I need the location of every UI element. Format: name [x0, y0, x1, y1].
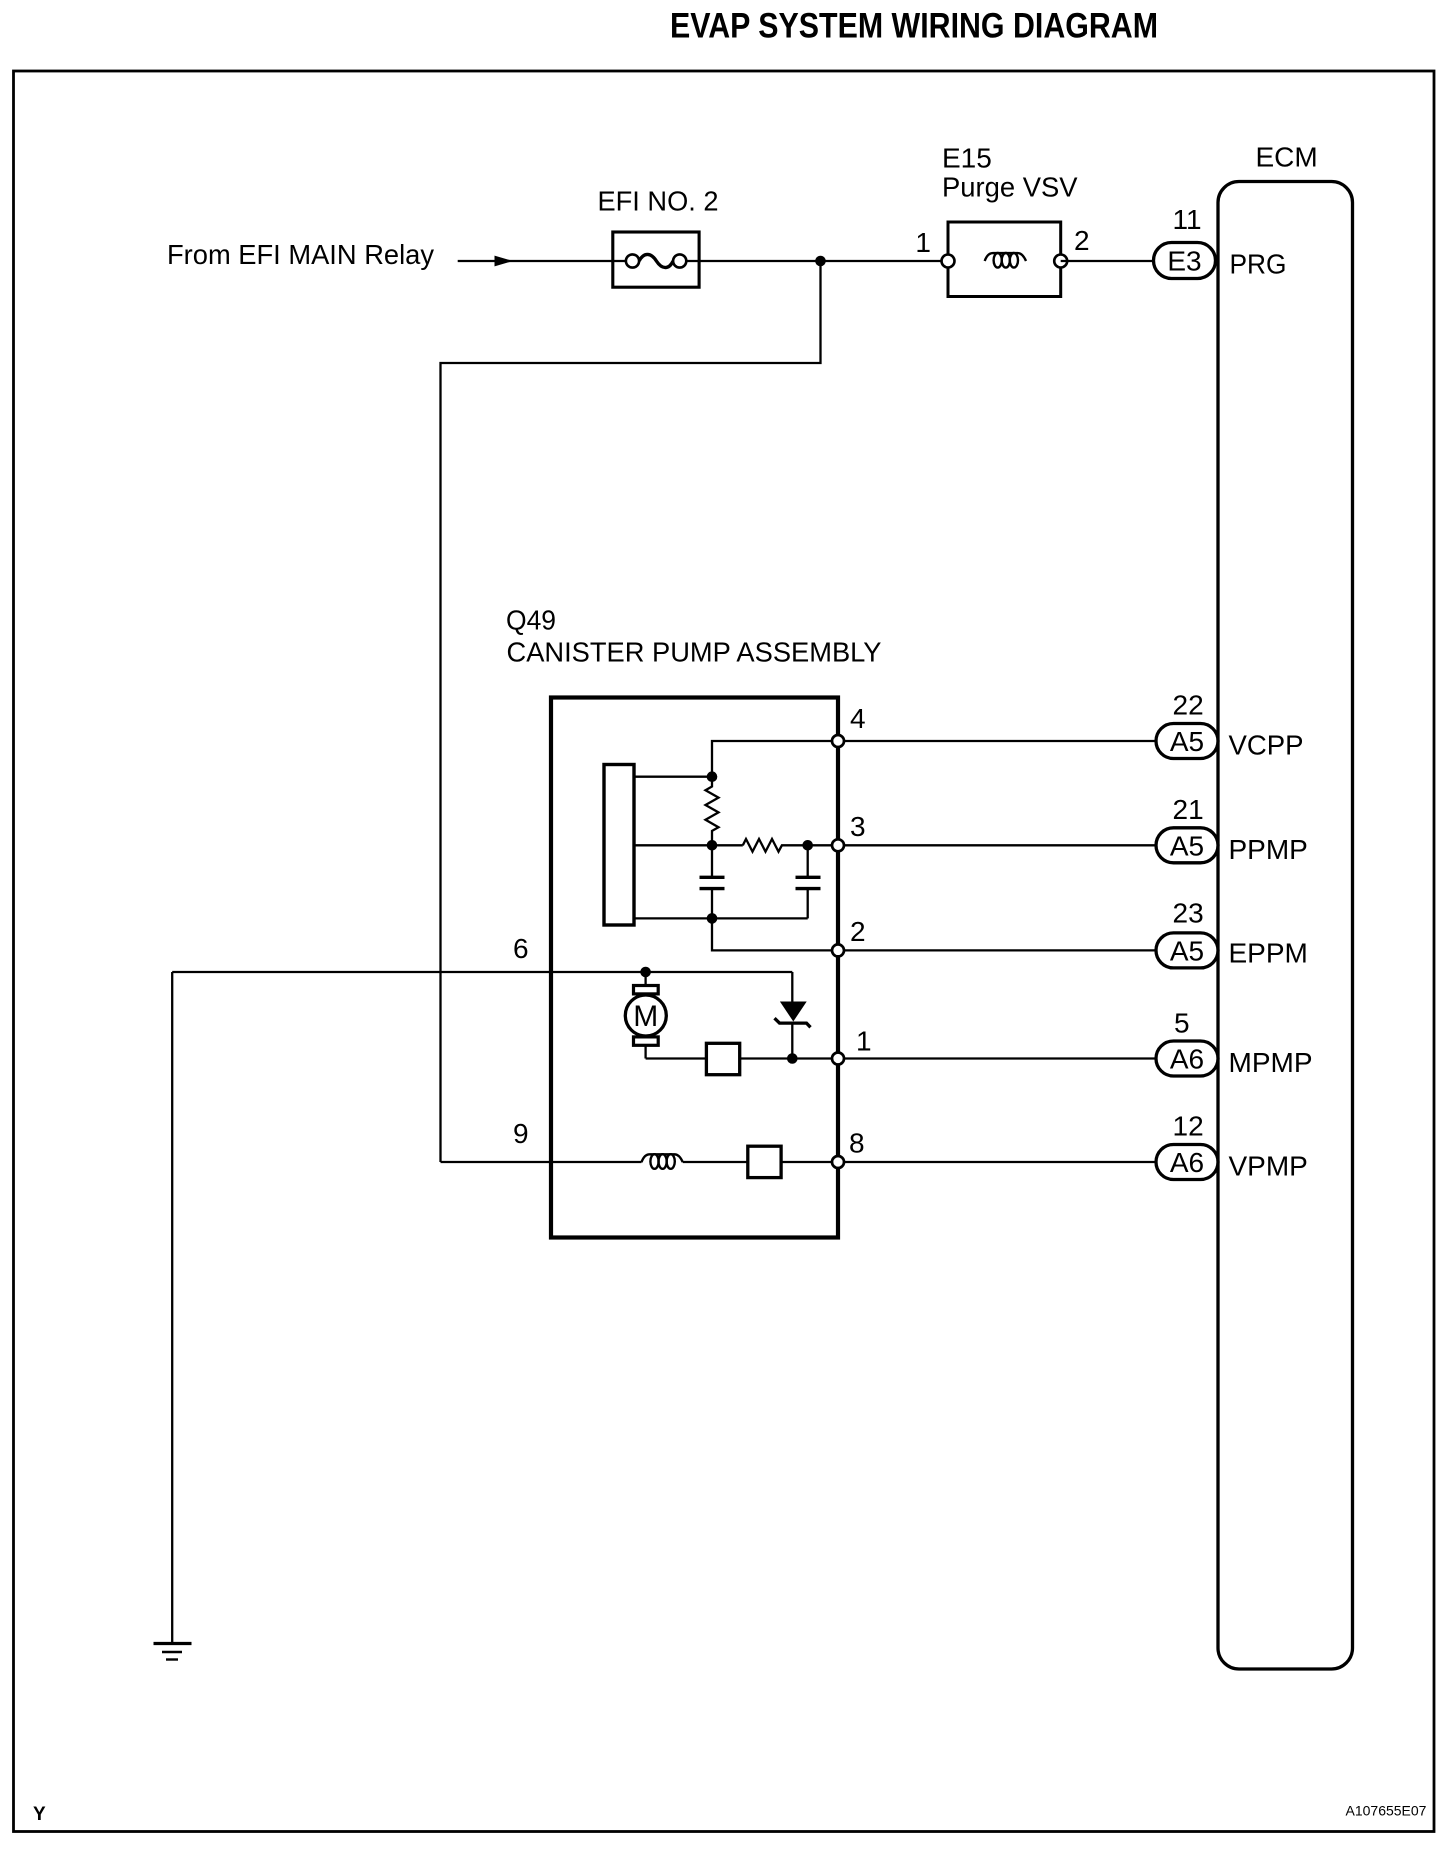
connector E3 oval — [1154, 243, 1216, 279]
svg-text:8: 8 — [849, 1128, 865, 1159]
svg-text:2: 2 — [850, 916, 866, 947]
svg-text:VPMP: VPMP — [1229, 1151, 1308, 1182]
svg-text:A5: A5 — [1170, 935, 1204, 966]
svg-text:M: M — [633, 1000, 658, 1033]
pin 6 wire (ground feed) — [172, 971, 792, 973]
svg-text:VCPP: VCPP — [1229, 730, 1304, 761]
wire from EFI MAIN relay to fuse — [458, 260, 633, 262]
connector A5 oval (EPPM) — [1156, 933, 1218, 968]
connector A5 oval (PPMP) — [1156, 828, 1218, 863]
junction dot on pin 1 net — [787, 1053, 798, 1064]
wire sensor bottom rail — [634, 917, 808, 919]
Purge VSV terminal circle pin 1 — [942, 255, 955, 268]
driver block (square) on pin 1 net — [706, 1043, 739, 1074]
svg-text:E3: E3 — [1167, 246, 1201, 277]
svg-text:ECM: ECM — [1256, 142, 1318, 173]
svg-text:6: 6 — [513, 933, 529, 964]
wire pin 2 to connector A5 (EPPM) — [844, 949, 1156, 951]
junction dot node C (R2 right) — [802, 840, 813, 851]
svg-text:3: 3 — [850, 811, 866, 842]
svg-text:PPMP: PPMP — [1229, 834, 1308, 865]
diode D1 (zener) — [775, 972, 811, 1059]
wire pin 8 to connector A6 (VPMP) — [844, 1161, 1156, 1163]
svg-text:9: 9 — [513, 1118, 529, 1149]
svg-text:23: 23 — [1173, 898, 1204, 929]
capacitor C1 — [700, 845, 725, 918]
svg-text:A5: A5 — [1170, 726, 1204, 757]
pin 1 terminal circle — [832, 1053, 844, 1065]
svg-text:EVAP SYSTEM WIRING DIAGRAM: EVAP SYSTEM WIRING DIAGRAM — [670, 6, 1158, 46]
svg-text:E15: E15 — [942, 143, 992, 174]
ground symbol — [154, 1644, 192, 1660]
wire coil to filter block — [683, 1161, 748, 1163]
pin 2 terminal circle — [832, 944, 844, 956]
connector A6 oval (VPMP) — [1156, 1145, 1218, 1180]
canister pump assembly Q49 box — [551, 698, 838, 1238]
svg-text:A6: A6 — [1170, 1147, 1204, 1178]
resistor R1 (vertical) — [706, 777, 719, 846]
junction dot on pin 6 wire — [640, 967, 651, 978]
wire sensor middle to node B — [634, 844, 743, 846]
pin 9 wire into coil — [441, 1161, 642, 1163]
pin 3 terminal circle — [832, 839, 844, 851]
wire Purge VSV pin 2 to ECM connector E3 — [1061, 260, 1155, 262]
node B junction dot — [707, 840, 718, 851]
svg-text:PRG: PRG — [1230, 249, 1287, 280]
Purge VSV terminal circle pin 2 — [1054, 255, 1067, 268]
svg-text:1: 1 — [856, 1026, 872, 1057]
solenoid E15 Purge VSV box — [948, 222, 1061, 297]
wire junction down-left to canister pump feed — [441, 261, 821, 1162]
ECM box — [1218, 182, 1353, 1670]
svg-text:11: 11 — [1173, 204, 1202, 235]
svg-text:A107655E07: A107655E07 — [1346, 1803, 1427, 1819]
wire node D to pin 2 — [712, 918, 838, 950]
junction dot below fuse output — [815, 256, 826, 267]
solenoid coil inside Purge VSV — [985, 253, 1026, 268]
arrowhead on supply wire — [495, 256, 514, 267]
svg-text:21: 21 — [1173, 794, 1204, 825]
wire pin 3 to connector A5 (PPMP) — [844, 844, 1156, 846]
svg-text:Y: Y — [33, 1804, 46, 1825]
pin 4 terminal circle — [832, 735, 844, 747]
svg-text:4: 4 — [850, 703, 866, 734]
svg-text:Q49: Q49 — [506, 605, 556, 636]
wire filter block to pin 8 — [781, 1161, 838, 1163]
wire fuse to junction to Purge VSV pin 1 — [680, 260, 948, 262]
wire pin 4 to connector A5 (VCPP) — [844, 740, 1156, 742]
svg-text:CANISTER PUMP ASSEMBLY: CANISTER PUMP ASSEMBLY — [507, 637, 882, 668]
svg-text:MPMP: MPMP — [1229, 1047, 1313, 1078]
motor M1 — [625, 972, 666, 1059]
svg-text:EFI NO. 2: EFI NO. 2 — [598, 186, 719, 217]
pressure sensor element (vertical bar) — [604, 765, 634, 926]
wire motor to driver block — [646, 1057, 707, 1059]
connector A6 oval (MPMP) — [1156, 1041, 1218, 1076]
svg-text:2: 2 — [1074, 225, 1090, 256]
node A junction dot — [707, 771, 718, 782]
wire pin 1 to connector A6 (MPMP) — [844, 1057, 1156, 1059]
inductor L1 on pin 9 net — [642, 1154, 683, 1169]
svg-text:A5: A5 — [1170, 830, 1204, 861]
pin 8 terminal circle — [832, 1156, 844, 1168]
fuse terminal circle left — [626, 254, 639, 267]
svg-text:22: 22 — [1173, 690, 1204, 721]
resistor R2 (horizontal) — [743, 839, 838, 852]
wire ground drop — [171, 972, 173, 1643]
fuse element wave — [639, 254, 673, 267]
fuse EFI NO. 2 box — [613, 232, 699, 287]
capacitor C2 — [796, 845, 821, 918]
wire pin 4 to internal node — [712, 741, 838, 777]
svg-text:From EFI MAIN Relay: From EFI MAIN Relay — [167, 239, 434, 270]
connector A5 oval (VCPP) — [1156, 724, 1218, 759]
filter block (square) on pin 8 net — [748, 1146, 781, 1177]
wire sensor top to node A — [634, 776, 712, 778]
wire driver to pin 1 — [740, 1057, 838, 1059]
svg-text:1: 1 — [915, 227, 931, 258]
svg-text:5: 5 — [1174, 1008, 1190, 1039]
svg-text:12: 12 — [1173, 1111, 1204, 1142]
fuse terminal circle right — [673, 254, 686, 267]
svg-text:A6: A6 — [1170, 1044, 1204, 1075]
svg-text:EPPM: EPPM — [1229, 938, 1308, 969]
svg-text:Purge VSV: Purge VSV — [942, 172, 1078, 203]
junction dot node D (bottom rail) — [707, 913, 718, 924]
